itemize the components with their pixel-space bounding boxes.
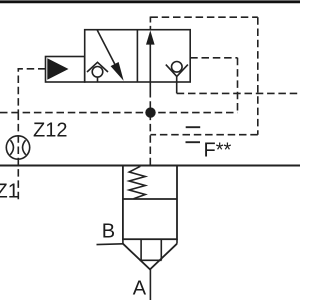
cartridge valve body <box>123 166 177 240</box>
wire: dashed vertical x=237.5 down to node line <box>237 58 239 113</box>
op valve U1: 2-position body <box>85 30 191 82</box>
svg-text:A: A <box>133 278 147 300</box>
flow arrow in right square <box>149 42 151 82</box>
frame border top <box>0 0 300 3</box>
cartridge spring chamber bottom line <box>123 198 177 200</box>
transition arrow in left square <box>97 30 115 65</box>
wire: valve side port dashed (190.2,57.8)-(237.5,57.8) <box>190 57 237 59</box>
svg-text:Z1: Z1 <box>0 181 19 203</box>
wire: main pilot dashed line y=112.6 from left edge to x=237.5 <box>0 112 238 114</box>
wire: dashed vertical x=18.3 through orifice to Z1 <box>17 113 19 202</box>
check valve V1 stem <box>97 77 99 82</box>
check valve V2 ball <box>172 62 183 73</box>
spring <box>129 166 145 199</box>
wire: valve bottom port x=150.4 solid stub <box>149 82 151 90</box>
wire: dashed line y=134.7 from node to box right (orifice F** line) <box>150 134 257 136</box>
wire: dashed stub valve top port x=150.4 <box>149 17 151 30</box>
check valve V2 stem <box>176 76 178 82</box>
wire: dashed x=150.4 down to main line <box>149 90 151 166</box>
check valve V2 seat <box>166 65 188 77</box>
pilot actuator box <box>46 57 85 83</box>
wire: right port of valve, solid stub down then dashed to x-edge <box>176 82 178 93</box>
orifice Z12 (nozzle circle) <box>6 136 29 159</box>
pilot actuator triangle <box>47 58 68 80</box>
svg-text:F**: F** <box>204 140 232 162</box>
svg-text:B: B <box>102 221 115 243</box>
check valve V1 seat <box>87 62 108 72</box>
svg-text:Z12: Z12 <box>33 120 67 142</box>
node junction dot <box>145 107 155 117</box>
poppet seat inner box <box>140 239 142 260</box>
wire: pilot supply dashed box top (150.4,17.2)-(257.8,17.2) <box>150 16 257 18</box>
wire: main horizontal line y=165.5 <box>0 165 300 167</box>
wire: port A line <box>149 269 151 300</box>
orifice F** bars <box>186 126 201 128</box>
cartridge poppet nose <box>122 239 124 244</box>
check valve V1 ball <box>92 67 103 78</box>
wire: dashed box right side x=257.8 <box>257 17 259 135</box>
wire: port B line <box>97 243 123 246</box>
wire: pilot line from actuator dashed left then down <box>18 69 45 113</box>
